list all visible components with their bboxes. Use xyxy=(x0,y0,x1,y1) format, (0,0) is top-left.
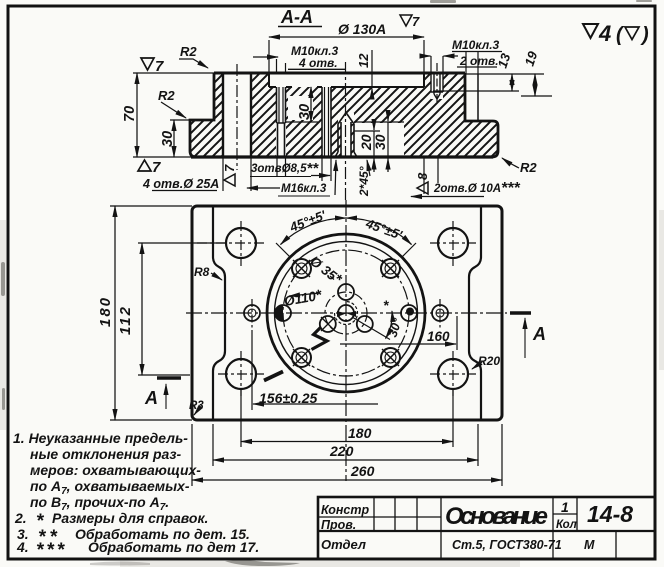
M10 hole right (2otv) xyxy=(431,73,443,99)
recess Ø130 walls xyxy=(269,73,424,87)
svg-text:180: 180 xyxy=(348,425,372,441)
dim 180 left xyxy=(110,206,192,420)
finish mark d7 rotated xyxy=(222,164,237,186)
section hatch left foot xyxy=(190,73,223,157)
dim 70 xyxy=(133,73,215,157)
radial line 45 xyxy=(403,243,417,257)
dim 30 thread depth xyxy=(286,121,318,123)
cutting plane left mark xyxy=(157,376,181,380)
upper body contour right xyxy=(469,206,481,420)
svg-text:220: 220 xyxy=(329,443,354,459)
svg-text:160: 160 xyxy=(427,329,450,344)
svg-text:260: 260 xyxy=(350,463,375,479)
dim 13 xyxy=(433,90,519,92)
plan centerline vertical xyxy=(345,200,347,481)
svg-text:2*45°: 2*45° xyxy=(357,166,371,197)
finish mark v7 on dim130 xyxy=(400,14,420,29)
svg-text:7: 7 xyxy=(155,58,164,75)
leader Ø35 xyxy=(330,276,334,280)
corner hole BR xyxy=(438,359,468,389)
leader R2 right xyxy=(502,158,519,168)
cutting plane left arrow xyxy=(165,384,167,409)
dim text white boxes xyxy=(288,96,404,156)
upper body contour left xyxy=(213,206,225,420)
M10 hole 45deg TR xyxy=(381,259,400,278)
PLAN DIMS xyxy=(110,206,502,486)
svg-text:R20: R20 xyxy=(478,354,500,368)
svg-text:3отвØ8,5**: 3отвØ8,5** xyxy=(251,160,319,177)
svg-text:4.: 4. xyxy=(16,539,29,555)
hole Ø10 right xyxy=(432,299,448,328)
section hatch wall2 xyxy=(251,73,270,157)
svg-text:R2: R2 xyxy=(158,88,175,103)
corner hole TR xyxy=(438,228,468,258)
finish mark v7 top-left xyxy=(141,58,164,75)
right notch back edge xyxy=(477,74,479,121)
svg-text:Ст.5, ГОСТ380-71: Ст.5, ГОСТ380-71 xyxy=(452,538,562,552)
dim 160 xyxy=(456,316,458,350)
section outline right profile xyxy=(465,73,498,157)
arrow right small xyxy=(424,158,438,194)
title block inner lines xyxy=(318,514,577,517)
corner hole BL xyxy=(226,359,256,389)
svg-text:R2: R2 xyxy=(520,160,537,175)
hole Ø25 edges xyxy=(223,73,251,157)
radial line 330 xyxy=(352,317,390,340)
svg-text:7: 7 xyxy=(222,164,237,172)
SECTION-VIEW xyxy=(190,62,498,200)
svg-text:2отв.Ø 10А***: 2отв.Ø 10А*** xyxy=(433,180,520,197)
cutting plane jog xyxy=(264,372,283,381)
leader M16 xyxy=(278,195,330,197)
dim 19 xyxy=(465,74,552,96)
bore Ø130 outer xyxy=(267,234,425,392)
svg-text:30: 30 xyxy=(297,104,313,120)
svg-text:30: 30 xyxy=(372,134,388,150)
leader R20 xyxy=(472,362,482,369)
corner hole TL xyxy=(226,228,256,258)
section hatch center block xyxy=(270,87,424,157)
M16 centerline xyxy=(345,62,347,200)
svg-text:А: А xyxy=(144,388,158,408)
svg-text:R3: R3 xyxy=(189,400,204,412)
bore Ø130 inner xyxy=(275,242,418,385)
svg-text:М: М xyxy=(584,538,595,552)
section outline top edge xyxy=(214,72,465,75)
right hole centerline xyxy=(436,63,438,104)
svg-text:1. Неуказанные предель-: 1. Неуказанные предель- xyxy=(13,430,188,446)
dim 156 xyxy=(251,330,253,410)
title block outer box xyxy=(318,497,655,559)
finish mark d8 rotated xyxy=(415,172,430,194)
ext lines 2otv M10 xyxy=(466,52,478,74)
slot1 thread lines xyxy=(279,87,283,123)
svg-text:4: 4 xyxy=(598,21,611,46)
svg-text:70: 70 xyxy=(122,106,138,122)
SECTION DIMS xyxy=(133,37,552,197)
svg-text:14-8: 14-8 xyxy=(587,501,633,527)
dim 30 left xyxy=(170,119,191,121)
dim 12 depth xyxy=(371,50,373,87)
svg-text:8: 8 xyxy=(415,172,430,180)
corner hole centerline crosses xyxy=(197,221,476,396)
svg-text:1: 1 xyxy=(561,499,569,515)
svg-text:М10кл.3: М10кл.3 xyxy=(452,38,500,52)
Ø8.5 hole top xyxy=(338,284,354,300)
hole Ø8.5 slot2 xyxy=(322,87,331,157)
dim 180 bottom xyxy=(241,390,453,447)
svg-text:R2: R2 xyxy=(180,44,197,59)
Ø8.5 hole 210 xyxy=(320,316,336,332)
SECTION TEXT xyxy=(122,7,649,197)
slot2 inner lines xyxy=(325,87,329,157)
leader 3otv Ø8.5 xyxy=(250,176,311,178)
leader 4otv Ø25A xyxy=(152,190,217,192)
svg-text:Основание: Основание xyxy=(445,503,548,530)
arc 45 right xyxy=(346,218,412,245)
M10 hole 45deg BL xyxy=(292,348,311,367)
hole on bolt circle right xyxy=(401,305,417,321)
M10 hole 45deg TL xyxy=(292,259,311,278)
svg-text:Отдел: Отдел xyxy=(321,537,366,552)
svg-text:R8: R8 xyxy=(194,265,210,279)
dim Ø130A xyxy=(269,40,424,72)
TITLE-BLOCK xyxy=(318,497,655,559)
dim 112 xyxy=(138,243,225,375)
svg-text:ные отклонения раз-: ные отклонения раз- xyxy=(30,446,181,462)
svg-text:Размеры для справок.: Размеры для справок. xyxy=(52,510,208,526)
svg-text:Ø 130А: Ø 130А xyxy=(338,21,386,37)
dim 260 xyxy=(192,424,502,486)
scan margin tint xyxy=(0,210,664,567)
M10 tapped hole slot1 xyxy=(277,87,286,157)
cutting plane zigzag xyxy=(312,327,328,350)
leader R8 xyxy=(211,273,222,280)
cutting plane right mark xyxy=(510,311,531,315)
dim 20 xyxy=(354,130,380,132)
leader dot left xyxy=(276,306,284,321)
svg-text:Кол: Кол xyxy=(556,519,577,531)
svg-text:Констр: Констр xyxy=(321,503,369,517)
PLAN TEXT xyxy=(97,207,500,479)
leader 2otv Ø10A xyxy=(411,196,484,198)
bolt circle Ø110 xyxy=(283,250,409,376)
PLAN-VIEW xyxy=(144,200,546,481)
cutting plane right arrow xyxy=(524,318,526,358)
svg-text:12: 12 xyxy=(356,53,371,68)
section outline left profile xyxy=(190,73,214,157)
finish mark d7 bottom-left xyxy=(138,159,161,176)
leader R3 xyxy=(194,410,198,415)
center hole M16 xyxy=(338,305,354,321)
dim 4otv M10 small xyxy=(253,56,278,58)
arc 45 left xyxy=(281,218,347,245)
ext lines Ø25 below xyxy=(223,158,251,191)
NOTES xyxy=(13,430,259,561)
svg-text:2 отв.: 2 отв. xyxy=(459,54,499,68)
svg-text:180: 180 xyxy=(97,296,114,327)
section hatch right rim xyxy=(424,73,465,157)
svg-text:2.: 2. xyxy=(14,510,27,526)
section outline bottom edge xyxy=(191,155,493,158)
M10 hole 45deg BR xyxy=(381,348,400,367)
circle Ø35 xyxy=(325,292,367,334)
finish mark v4 top-right xyxy=(583,21,649,46)
svg-text:): ) xyxy=(640,24,649,46)
svg-text:А-А: А-А xyxy=(280,7,313,27)
svg-text:меров: охватывающих-: меров: охватывающих- xyxy=(30,462,201,478)
leader Ø110 xyxy=(289,293,320,296)
center arrow blobs xyxy=(337,311,356,317)
svg-text:М16кл.3: М16кл.3 xyxy=(281,183,327,195)
radial line 135 xyxy=(276,243,290,257)
svg-text:7: 7 xyxy=(412,14,420,29)
leader 2otv arrow xyxy=(424,55,431,57)
leader 2x45 xyxy=(367,160,370,176)
svg-text:*: * xyxy=(383,297,389,313)
svg-text:4 отв.Ø 25А: 4 отв.Ø 25А xyxy=(142,177,219,191)
svg-text:Пров.: Пров. xyxy=(321,518,356,532)
Ø8.5 hole 330 xyxy=(357,316,373,332)
recess floor xyxy=(269,86,424,88)
svg-text:***: *** xyxy=(36,540,67,561)
leader R2 left xyxy=(161,102,186,118)
hole Ø25 centerline xyxy=(236,64,238,170)
svg-text:30: 30 xyxy=(160,131,176,147)
svg-text:112: 112 xyxy=(117,305,134,335)
plate outer outline xyxy=(192,206,502,420)
plan centerline horizontal xyxy=(186,312,507,314)
arc 30deg xyxy=(386,311,393,339)
svg-text:А: А xyxy=(532,324,546,344)
svg-text:Обработать по дет 17.: Обработать по дет 17. xyxy=(88,539,259,555)
leader R2 top xyxy=(179,59,208,68)
section hatch right step xyxy=(465,121,498,157)
dim 30 drill depth xyxy=(354,121,404,123)
hole Ø10 left xyxy=(244,299,260,328)
svg-text:7: 7 xyxy=(152,159,161,176)
leader dot right xyxy=(406,308,414,316)
svg-text:4 отв.: 4 отв. xyxy=(298,56,338,70)
hole on bolt circle left xyxy=(275,305,291,321)
dim 220 xyxy=(213,424,478,466)
svg-text:156±0.25: 156±0.25 xyxy=(259,390,318,406)
M16 blind hole xyxy=(335,113,357,158)
